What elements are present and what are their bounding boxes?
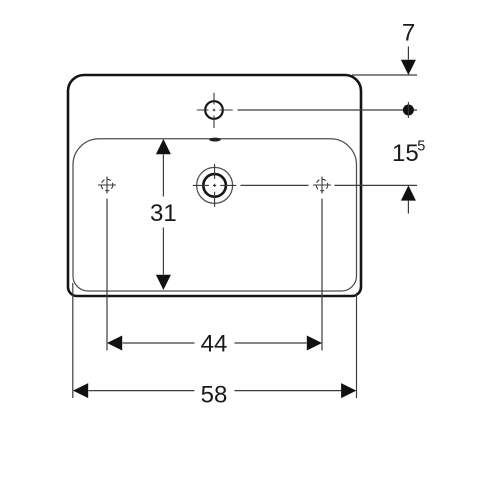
left fixing hole marker [98, 177, 116, 194]
dimension 58 right arrow [341, 383, 356, 398]
svg-text:7: 7 [402, 20, 415, 47]
dimension 31 top arrow [156, 139, 171, 154]
drain crosshair [193, 164, 236, 207]
washbasin outer outline [68, 75, 361, 296]
top edge extension line [352, 74, 417, 76]
dimension 15.5 arrow [401, 185, 416, 200]
dimension 58 line [89, 390, 342, 392]
overflow slot [209, 138, 220, 141]
left outer extension line [72, 283, 74, 398]
dimension 31 bottom arrow [156, 275, 171, 290]
dimension 44 line [123, 342, 307, 344]
right outer extension line [356, 293, 358, 398]
drain outer circle [197, 167, 233, 203]
dimension 58 left arrow [73, 383, 88, 398]
svg-text:15: 15 [392, 140, 419, 167]
dimension 7 arrow [407, 47, 409, 60]
right hole extension line [321, 199, 323, 351]
dimension 31 line [162, 155, 164, 275]
svg-text:58: 58 [201, 382, 228, 409]
tap hole crosshair [197, 93, 233, 128]
left hole extension line [106, 199, 108, 351]
svg-text:31: 31 [150, 200, 177, 227]
right fixing hole marker [313, 177, 331, 194]
svg-text:44: 44 [201, 331, 228, 358]
tap hole dimension line [238, 109, 418, 111]
tap hole dimension dot [403, 105, 414, 116]
basin bowl inner outline [73, 139, 357, 291]
tap hole circle [205, 101, 223, 119]
dimension 44 left arrow [107, 336, 122, 351]
svg-text:5: 5 [417, 139, 425, 155]
drain dimension line [241, 184, 418, 186]
dimension 44 right arrow [307, 336, 322, 351]
drain inner circle [203, 174, 226, 197]
